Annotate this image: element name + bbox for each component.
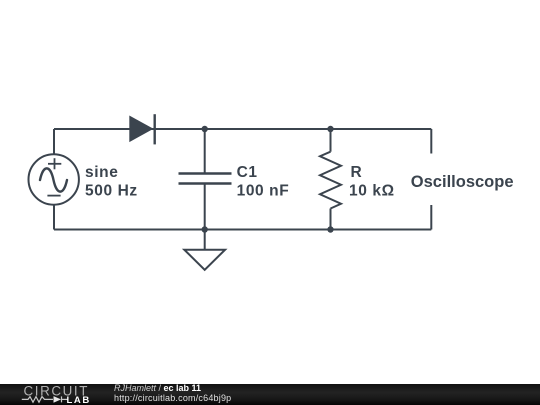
voltage source minus sign bbox=[47, 195, 60, 197]
node junction dot top-right (resistor) bbox=[327, 126, 333, 132]
wire oscilloscope bottom terminal bbox=[430, 205, 432, 230]
capacitor C1 bottom lead bbox=[204, 184, 206, 230]
svg-text:R: R bbox=[351, 164, 363, 181]
ground symbol bbox=[184, 250, 225, 270]
svg-text:500 Hz: 500 Hz bbox=[85, 183, 138, 200]
svg-text:http://circuitlab.com/c64bj9p: http://circuitlab.com/c64bj9p bbox=[114, 393, 231, 403]
svg-text:LAB: LAB bbox=[67, 395, 91, 405]
capacitor C1 top lead bbox=[204, 129, 206, 174]
node junction dot bottom-left (cap/gnd) bbox=[202, 226, 208, 232]
wire source top lead bbox=[53, 129, 55, 156]
voltage source V1 circle bbox=[29, 154, 79, 204]
CircuitLab logo doodle diode bbox=[54, 396, 62, 403]
diode D1 triangle bbox=[129, 116, 153, 143]
svg-text:10 kΩ: 10 kΩ bbox=[349, 183, 395, 200]
wire top rail bbox=[54, 128, 431, 130]
resistor R bottom lead bbox=[330, 209, 332, 230]
wire oscilloscope top terminal bbox=[430, 129, 432, 154]
svg-text:RJHamlett / ec lab 11: RJHamlett / ec lab 11 bbox=[114, 383, 201, 393]
resistor R top lead bbox=[330, 129, 332, 152]
capacitor C1 bottom plate bbox=[179, 182, 232, 185]
node junction dot bottom-right (resistor) bbox=[327, 226, 333, 232]
CircuitLab logo doodle wire bbox=[22, 396, 68, 402]
node junction dot top-left (cap) bbox=[202, 126, 208, 132]
resistor R zigzag bbox=[320, 152, 341, 209]
wire source bottom lead bbox=[53, 203, 55, 230]
voltage source sine wave bbox=[40, 168, 67, 191]
svg-text:100 nF: 100 nF bbox=[237, 183, 290, 200]
wire bottom rail bbox=[54, 229, 431, 231]
svg-text:sine: sine bbox=[85, 164, 118, 181]
diode D1 cathode bar bbox=[153, 114, 155, 144]
capacitor C1 top plate bbox=[179, 172, 232, 175]
svg-text:Oscilloscope: Oscilloscope bbox=[411, 173, 514, 191]
voltage source plus sign bbox=[48, 158, 61, 169]
ground lead bbox=[204, 230, 206, 250]
svg-text:C1: C1 bbox=[237, 164, 258, 181]
